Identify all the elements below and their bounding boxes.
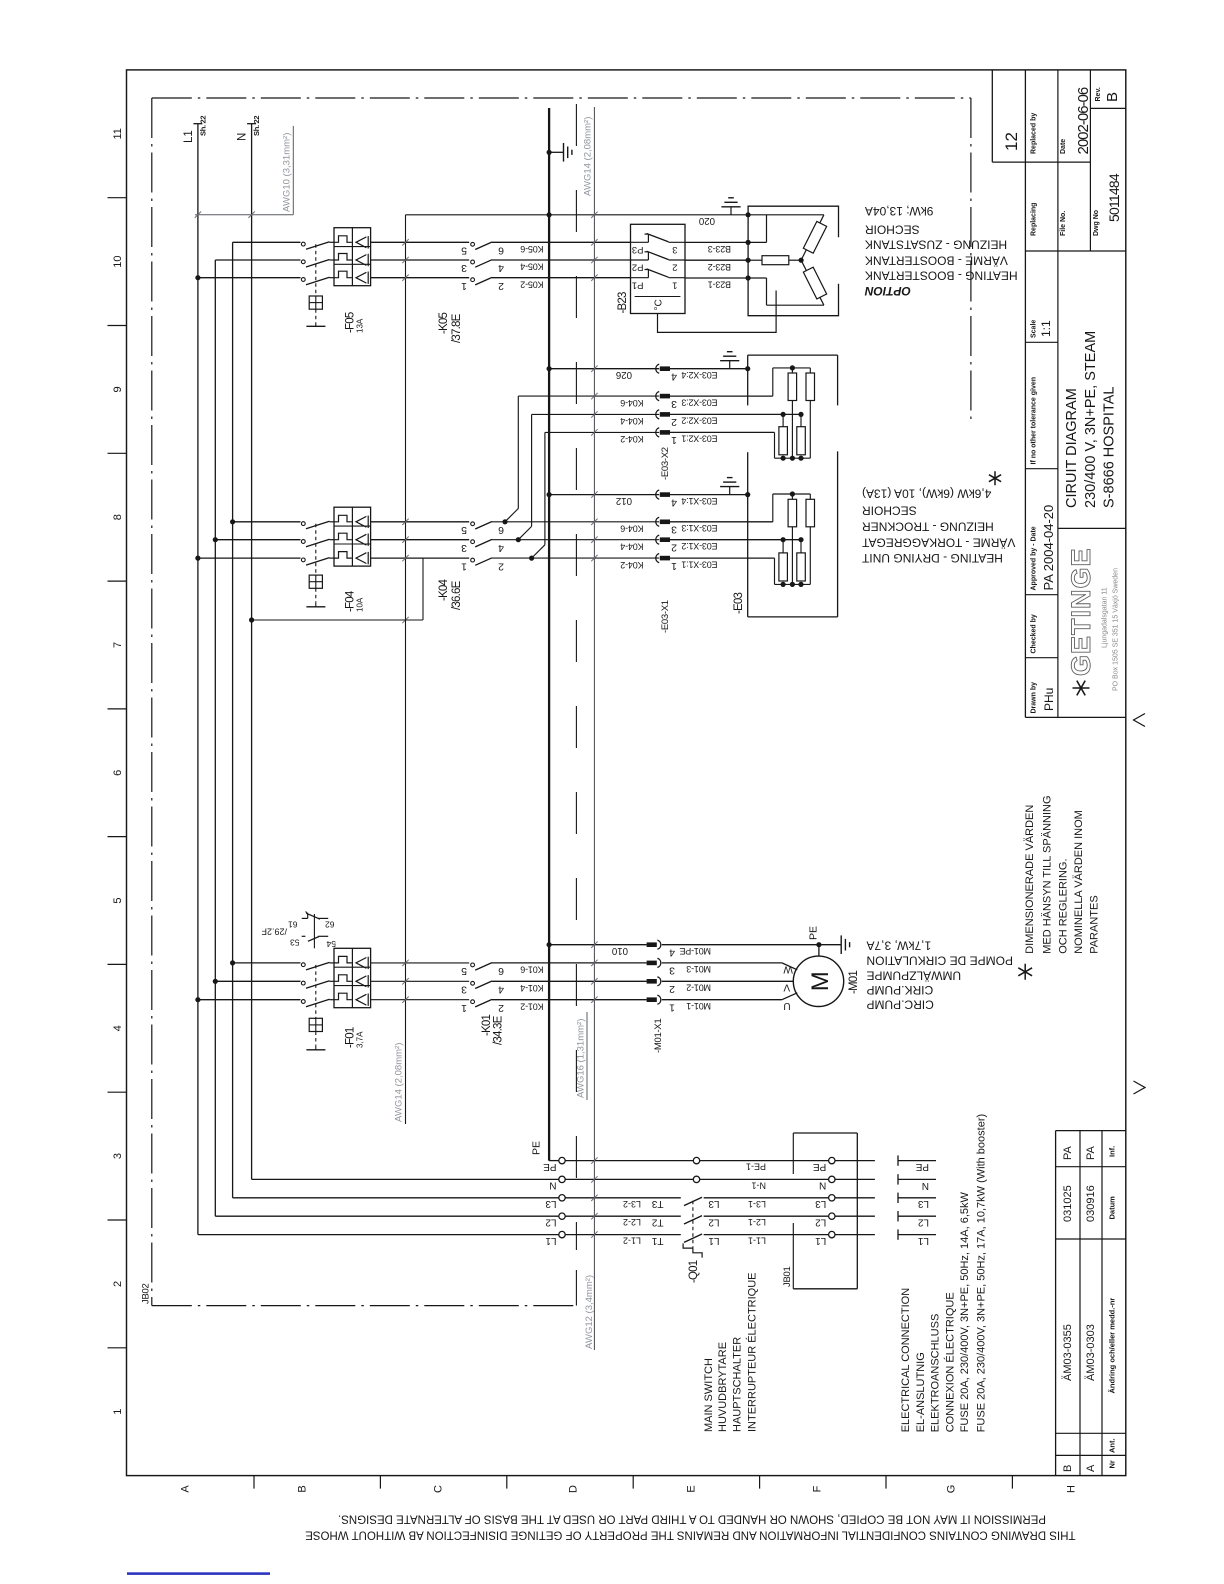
svg-text:3: 3 [669, 965, 675, 977]
E04 inner wiring [748, 214, 824, 216]
-F04 thermal element [334, 552, 352, 559]
svg-text:E: E [686, 1485, 698, 1492]
svg-text:Inf.: Inf. [1108, 1146, 1117, 1157]
svg-text:12: 12 [1002, 132, 1021, 151]
E03 group feed line [772, 494, 774, 522]
svg-text:53: 53 [290, 938, 300, 948]
svg-text:L1: L1 [545, 1235, 557, 1246]
cabinet JB02 boundary left [151, 98, 153, 1306]
-F01 thermal element [334, 956, 352, 963]
E04 resistor element middle [748, 259, 762, 261]
wire L3 bus corner [233, 1197, 559, 1199]
svg-text:ELECTRICAL CONNECTION: ELECTRICAL CONNECTION [900, 1288, 912, 1433]
E03 earth lower [729, 487, 731, 495]
svg-text:K04-4: K04-4 [620, 416, 643, 426]
svg-text:PE: PE [915, 1161, 929, 1172]
Q01 pass-through PE [693, 1157, 699, 1163]
svg-text:10A: 10A [356, 597, 365, 612]
svg-text:11: 11 [112, 128, 124, 139]
svg-text:3,7A: 3,7A [356, 1031, 365, 1048]
svg-text:E03-X1:2: E03-X1:2 [681, 541, 717, 551]
svg-text:5: 5 [461, 965, 467, 977]
wires connectors to E03 lower group [670, 494, 748, 496]
svg-text:-E03-X1: -E03-X1 [660, 600, 671, 633]
wire 010 M01-PE [547, 942, 552, 947]
wire L2 tap to F01 pole 3 [213, 979, 218, 984]
-F01 operator bar [306, 1049, 325, 1051]
svg-text:CIRUIT DIAGRAM: CIRUIT DIAGRAM [1064, 388, 1080, 508]
E03 through verticals [791, 527, 793, 585]
B23 capillary to E04 sensor [658, 291, 777, 333]
svg-text:DIMENSIONERADE VÄRDEN: DIMENSIONERADE VÄRDEN [1024, 805, 1036, 954]
svg-text:T3: T3 [651, 1198, 663, 1209]
E03 resistor upper pair [791, 368, 793, 373]
svg-text:P3: P3 [632, 244, 644, 255]
svg-text:PO Box 1505 SE 351 15 Växjö Sw: PO Box 1505 SE 351 15 Växjö Sweden [1113, 568, 1120, 691]
wire to E03-X2 row 414 [532, 413, 660, 415]
terminal M01-PE [647, 942, 657, 947]
wires B23 to E04 [685, 241, 748, 243]
wire L3 bus vertical [232, 242, 234, 1198]
E03 through verticals [791, 401, 793, 459]
svg-text:UMWÄLZPUMPE: UMWÄLZPUMPE [867, 968, 962, 982]
svg-text:N-1: N-1 [751, 1180, 766, 1190]
wire L2 tap to F04 pole 3 [213, 537, 218, 542]
svg-text:10: 10 [112, 255, 124, 267]
wire M01-PE to earth [662, 944, 841, 946]
terminal E03-X2:1 [656, 428, 659, 437]
svg-text:PA: PA [1085, 1145, 1097, 1160]
svg-text:-K05: -K05 [438, 313, 450, 334]
svg-text:Nr: Nr [1108, 1460, 1117, 1468]
E03 resistor lower pair [779, 427, 788, 455]
svg-text:-E03: -E03 [733, 593, 745, 614]
wire 012 [547, 492, 552, 497]
svg-text:VÄRME - TORKAGGREGAT: VÄRME - TORKAGGREGAT [861, 536, 1015, 550]
wire N riser long [405, 215, 407, 1124]
svg-text:/34.3E: /34.3E [493, 1015, 505, 1045]
terminal M01-1 [647, 997, 657, 1002]
K04 contact 3-4 [471, 540, 475, 544]
svg-text:PE: PE [531, 1141, 543, 1155]
svg-text:L3: L3 [815, 1198, 827, 1209]
svg-text:T2: T2 [651, 1216, 663, 1227]
wire L1 tap to F01 pole 1 [195, 997, 200, 1002]
E03 bottom bus [775, 457, 811, 459]
E04 resistor element upper [801, 215, 824, 260]
svg-text:230/400 V, 3N+PE, STEAM: 230/400 V, 3N+PE, STEAM [1083, 331, 1099, 508]
K04 contact 5-6 [471, 522, 475, 526]
svg-text:1: 1 [461, 560, 467, 572]
terminal L2 cabinet [559, 1213, 565, 1219]
svg-text:K04-2: K04-2 [620, 434, 643, 444]
wire K05-4 to B23 [492, 259, 631, 261]
heater E04 box [748, 206, 838, 316]
B23 contact P1-1 [631, 277, 649, 279]
-F04 thermal element [334, 515, 352, 522]
grid ticks bottom edge [253, 1476, 255, 1489]
svg-text:030916: 030916 [1085, 1185, 1097, 1222]
svg-text:HEIZUNG - TROCKNER: HEIZUNG - TROCKNER [862, 520, 994, 534]
svg-text:1,7kW, 3,7A: 1,7kW, 3,7A [867, 938, 932, 952]
svg-text:M01-1: M01-1 [686, 1001, 711, 1011]
svg-text:PARANTES: PARANTES [1088, 895, 1100, 953]
svg-text:B23-1: B23-1 [708, 280, 731, 290]
E03 resistor upper pair [791, 494, 793, 499]
svg-text:Drawn by: Drawn by [1031, 682, 1038, 714]
svg-text:Sh. 22: Sh. 22 [199, 116, 208, 136]
svg-text:N: N [819, 1180, 826, 1191]
svg-text:VÄRME - BOOSTERTANK: VÄRME - BOOSTERTANK [865, 254, 1008, 268]
svg-text:K04-6: K04-6 [620, 398, 643, 408]
svg-text:K04-6: K04-6 [620, 524, 643, 534]
svg-text:CIRK.PUMP: CIRK.PUMP [867, 983, 934, 997]
svg-text:A: A [1085, 1464, 1097, 1472]
terminal E03-X1:3 [656, 517, 659, 526]
svg-text:-B23: -B23 [617, 292, 629, 313]
PE bus corner to terminal [549, 1160, 559, 1162]
svg-text:Approved by - Date: Approved by - Date [1031, 526, 1038, 590]
riser to E03-X2 row 432 [529, 556, 534, 561]
svg-text:N: N [549, 1180, 556, 1191]
-F04 operator bar [306, 606, 325, 608]
svg-text:ÄM03-0355: ÄM03-0355 [1062, 1324, 1074, 1381]
wire to E03-X2 row 432 [545, 431, 659, 433]
svg-text:031025: 031025 [1062, 1185, 1074, 1222]
svg-text:E03-X2:3: E03-X2:3 [681, 397, 717, 407]
svg-text:P2: P2 [632, 262, 644, 273]
wire N branch horizontal [249, 617, 254, 622]
svg-text:L1-1: L1-1 [748, 1236, 766, 1246]
wire 026 [547, 366, 552, 371]
svg-text:3: 3 [112, 1153, 124, 1159]
svg-text:1: 1 [671, 434, 677, 446]
svg-text:B23-2: B23-2 [708, 262, 731, 272]
svg-text:-E03-X2: -E03-X2 [660, 447, 671, 480]
svg-text:-K04: -K04 [438, 579, 450, 601]
svg-text:1: 1 [672, 279, 677, 290]
wire PE bus (bold) [548, 108, 550, 1161]
-F04 magnetic element [356, 516, 366, 527]
svg-text:026: 026 [616, 369, 632, 380]
-F05 thermal element [334, 254, 352, 261]
Q01 pole T3-L3 [684, 1197, 702, 1205]
K05 contact 5-6 [471, 242, 475, 246]
svg-text:3: 3 [461, 542, 467, 554]
svg-text:-M01: -M01 [848, 971, 860, 994]
svg-text:3: 3 [461, 262, 467, 274]
svg-text:G: G [946, 1485, 958, 1494]
Q01 handle [683, 1243, 693, 1248]
svg-text:PA: PA [1062, 1145, 1074, 1160]
svg-text:OPTION: OPTION [865, 284, 911, 298]
svg-text:GETINGE: GETINGE [1066, 547, 1096, 676]
svg-text:M01-3: M01-3 [686, 964, 711, 974]
svg-text:6: 6 [112, 770, 124, 776]
svg-text:Date: Date [1060, 139, 1067, 154]
terminal E03-X2:2 [656, 410, 659, 419]
terminal E03-X2:4 [656, 364, 659, 373]
svg-text:E03-X1:1: E03-X1:1 [681, 559, 717, 569]
svg-text:K05-6: K05-6 [520, 244, 543, 254]
svg-text:T1: T1 [651, 1235, 663, 1246]
B23 contact P2-2 [631, 259, 649, 261]
svg-text:L2-1: L2-1 [748, 1217, 766, 1227]
svg-text:2: 2 [112, 1281, 124, 1287]
terminal E03-X2:3 [656, 392, 659, 401]
svg-text:AWG14 (2,08mm²): AWG14 (2,08mm²) [583, 117, 594, 196]
wire L3 tap to F05 pole 5 [233, 241, 301, 243]
svg-text:°C: °C [654, 299, 665, 310]
svg-text:Replacing: Replacing [1031, 203, 1038, 236]
terminal E03-X1:1 [656, 554, 659, 563]
svg-text:AWG12 (3,4mm²): AWG12 (3,4mm²) [584, 1275, 595, 1349]
svg-text:4,6kW (6kW), 10A (13A): 4,6kW (6kW), 10A (13A) [862, 487, 991, 501]
svg-text:E03-X1:3: E03-X1:3 [681, 523, 717, 533]
wire to E03-X2 row 396 [518, 395, 659, 397]
svg-text:L2: L2 [917, 1217, 929, 1228]
drawing frame [127, 70, 1126, 1476]
-F05 magnetic element [356, 237, 366, 248]
svg-text:B: B [297, 1485, 309, 1492]
blue scan mark bottom left [127, 1572, 270, 1575]
svg-text:K04-4: K04-4 [620, 541, 643, 551]
svg-text:1: 1 [671, 560, 677, 572]
wire L1 tap to F04 pole 1 [195, 556, 200, 561]
svg-text:L3-1: L3-1 [748, 1199, 766, 1209]
-F01 magnetic element [356, 976, 366, 987]
svg-text:3: 3 [461, 984, 467, 996]
svg-text:61: 61 [288, 920, 298, 930]
wire N branch riser to F04 pole 1 [422, 558, 424, 620]
wire K04-4 to E03-X1 [492, 539, 659, 541]
svg-text:6: 6 [498, 245, 504, 257]
svg-text:1:1: 1:1 [1039, 320, 1053, 337]
-F01 pole contact y=963 [301, 963, 305, 967]
svg-text:2: 2 [498, 1002, 504, 1014]
svg-text:Checked by: Checked by [1031, 614, 1038, 653]
svg-text:B: B [1104, 92, 1121, 102]
svg-text:L2: L2 [545, 1216, 557, 1227]
-F01 magnetic element [356, 994, 366, 1005]
-F04 pole contact y=540 [301, 540, 305, 544]
svg-text:020: 020 [698, 215, 715, 226]
svg-text:ELEKTROANSCHLUSS: ELEKTROANSCHLUSS [930, 1314, 942, 1433]
svg-text:File No.: File No. [1060, 211, 1067, 236]
wire L2 bus vertical [214, 260, 216, 1216]
svg-text:L1: L1 [917, 1235, 929, 1246]
svg-text:PA 2004-04-20: PA 2004-04-20 [1041, 505, 1056, 591]
wire K01-2 to M01-X1 [492, 999, 647, 1001]
svg-text:M01-PE: M01-PE [679, 946, 711, 956]
svg-text:K01-6: K01-6 [520, 965, 543, 975]
svg-text:HEIZUNG - ZUSATSTANK: HEIZUNG - ZUSATSTANK [865, 238, 1007, 252]
svg-text:3: 3 [671, 524, 677, 536]
E03 middle bus [781, 412, 786, 417]
svg-text:K04-2: K04-2 [620, 560, 643, 570]
svg-text:D: D [568, 1485, 580, 1493]
svg-text:Dwg No: Dwg No [1093, 210, 1100, 236]
svg-text:A: A [180, 1485, 192, 1493]
note asterisk [1018, 964, 1032, 980]
svg-text:2: 2 [672, 262, 677, 273]
-F01 thermal element [334, 975, 352, 982]
svg-text:N: N [922, 1180, 929, 1191]
wire K01-6 to M01-X1 [492, 962, 647, 964]
K01 contact 3-4 [471, 981, 475, 985]
ground symbol at PE bus top [547, 150, 552, 155]
svg-text:L1: L1 [183, 130, 195, 143]
breaker -F04 box [334, 507, 371, 566]
E04 earth symbol [730, 207, 732, 215]
-F05 magnetic element [356, 255, 366, 266]
svg-text:2: 2 [498, 560, 504, 572]
svg-text:9kW; 13,04A: 9kW; 13,04A [865, 204, 933, 218]
supply stub L1 [897, 1229, 899, 1239]
svg-text:2: 2 [669, 983, 675, 995]
wires F01 to K01 [371, 962, 470, 964]
E04 terminal dots [746, 212, 751, 217]
-F01 magnetic element [356, 958, 366, 969]
-F04 thermal element [334, 533, 352, 540]
svg-text:F: F [812, 1485, 824, 1492]
svg-text:L3-2: L3-2 [623, 1199, 641, 1209]
svg-text:JB01: JB01 [782, 1267, 793, 1287]
wire K04-2 to E03-X1 [492, 557, 659, 559]
-F05 magnetic element [356, 272, 366, 283]
terminal E03-X1:4 [656, 490, 659, 499]
svg-text:JB02: JB02 [141, 1284, 152, 1304]
svg-text:3: 3 [672, 244, 677, 255]
fold mark right edge upper [1134, 714, 1146, 727]
terminal PE JB01 [829, 1157, 835, 1163]
svg-text:NOMINELLA VÄRDEN INOM: NOMINELLA VÄRDEN INOM [1073, 810, 1085, 954]
svg-text:HUVUDBRYTARE: HUVUDBRYTARE [717, 1342, 729, 1432]
wire K05-6 to B23 [492, 241, 631, 243]
terminal N JB01 [829, 1176, 835, 1182]
-F05 thermal element [334, 271, 352, 278]
terminal M01-2 [647, 979, 657, 984]
wire L1 bus vertical [197, 124, 199, 1235]
K04 contact 1-2 [471, 558, 475, 562]
-F05 trip linkage [315, 244, 317, 296]
svg-text:AWG10 (3,31mm²): AWG10 (3,31mm²) [282, 133, 293, 212]
wire L1 tap to F05 pole 1 [195, 275, 200, 280]
wire N bus vertical [251, 124, 253, 1180]
svg-text:SECHOIR: SECHOIR [862, 504, 917, 518]
svg-text:Sh. 22: Sh. 22 [252, 116, 261, 136]
svg-text:PE: PE [808, 926, 820, 940]
svg-text:2: 2 [498, 280, 504, 292]
svg-text:/37.8E: /37.8E [451, 313, 463, 343]
svg-text:Ant.: Ant. [1108, 1438, 1117, 1453]
svg-text:L1-2: L1-2 [623, 1236, 641, 1246]
svg-text:5: 5 [112, 897, 124, 903]
-F04 magnetic element [356, 534, 366, 545]
wire K04-6 to E03-X1 [492, 521, 659, 523]
svg-text:L2: L2 [815, 1216, 827, 1227]
svg-text:/29.2F: /29.2F [261, 927, 287, 937]
svg-text:INTERRUPTEUR ÉLECTRIQUE: INTERRUPTEUR ÉLECTRIQUE [746, 1272, 759, 1432]
svg-text:K01-2: K01-2 [520, 1001, 543, 1011]
svg-text:4: 4 [498, 542, 504, 554]
svg-text:N: N [237, 133, 249, 141]
junction box JB01 [793, 1132, 857, 1134]
terminal L3 JB01 [829, 1195, 835, 1201]
-F05 operator bar [306, 325, 325, 327]
supply stub N [897, 1174, 899, 1184]
svg-text:4: 4 [671, 496, 677, 508]
-F04 magnetic element [356, 553, 366, 564]
wire L2 bus corner [215, 1215, 559, 1217]
Q01 linkage [692, 1201, 694, 1248]
svg-text:5011484: 5011484 [1106, 173, 1122, 222]
svg-text:HEATING - BOOSTERTANK: HEATING - BOOSTERTANK [865, 269, 1018, 283]
fold mark right edge lower [1134, 1081, 1146, 1094]
svg-text:B: B [1062, 1465, 1074, 1472]
svg-text:4: 4 [671, 371, 677, 383]
E04 resistor element lower [801, 260, 824, 305]
E03 earth upper [729, 361, 731, 369]
svg-text:2002-06-06: 2002-06-06 [1075, 87, 1092, 154]
supply stub PE [897, 1155, 899, 1165]
F01 aux linkage [313, 914, 315, 948]
svg-text:Datum: Datum [1108, 1196, 1117, 1220]
thermostat B23 box [631, 224, 686, 313]
svg-text:CIRC.PUMP: CIRC.PUMP [867, 997, 934, 1011]
svg-text:MED HÄNSYN TILL SPÄNNING: MED HÄNSYN TILL SPÄNNING [1041, 795, 1053, 953]
svg-text:C: C [433, 1485, 445, 1493]
svg-text:4: 4 [112, 1025, 124, 1031]
svg-text:OCH REGLERING.: OCH REGLERING. [1057, 858, 1069, 953]
svg-text:K05-2: K05-2 [520, 279, 543, 289]
svg-text:9: 9 [112, 386, 124, 392]
wire K05-2 to B23 [492, 277, 631, 279]
wire L1 from sheet 22 terminal bar [193, 123, 202, 125]
breaker -F05 box [334, 228, 371, 286]
svg-text:HEATING - DRYING UNIT: HEATING - DRYING UNIT [861, 551, 1003, 565]
svg-text:POMPE DE CIRKULATION: POMPE DE CIRKULATION [867, 953, 1013, 967]
svg-text:PERMISSION IT MAY NOT BE COPIE: PERMISSION IT MAY NOT BE COPIED, SHOWN O… [338, 1513, 1046, 1525]
svg-text:54: 54 [326, 939, 336, 949]
-F01 trip linkage [315, 965, 317, 1018]
svg-text:AWG14 (2,08mm²): AWG14 (2,08mm²) [394, 1043, 405, 1122]
B23 contact P3-3 [631, 241, 649, 243]
svg-text:L2-2: L2-2 [623, 1217, 641, 1227]
-F04 trip linkage [315, 524, 317, 575]
svg-text:4: 4 [498, 984, 504, 996]
wires F05 to K05 [371, 241, 470, 243]
wire L1 bus corner [198, 1234, 559, 1236]
revision table [1056, 1130, 1126, 1132]
K01 contact 5-6 [471, 963, 475, 967]
title block outline [991, 70, 993, 162]
E04 star point [799, 258, 804, 263]
svg-text:S-8666 HOSPITAL: S-8666 HOSPITAL [1102, 387, 1118, 508]
cable leader line [593, 107, 595, 1350]
svg-text:K05-4: K05-4 [520, 262, 543, 272]
svg-text:62: 62 [325, 919, 335, 929]
svg-text:Ljungadalsgatan 11: Ljungadalsgatan 11 [1102, 587, 1109, 648]
Q01 pole T2-L2 [684, 1216, 702, 1224]
svg-text:5: 5 [461, 524, 467, 536]
svg-text:E03-X2:2: E03-X2:2 [681, 416, 717, 426]
svg-text:2: 2 [671, 542, 677, 554]
svg-text:1: 1 [461, 1002, 467, 1014]
cable AWG10 crossing line [195, 214, 293, 216]
svg-text:1: 1 [112, 1409, 124, 1415]
cabinet JB02 boundary right [970, 98, 972, 422]
